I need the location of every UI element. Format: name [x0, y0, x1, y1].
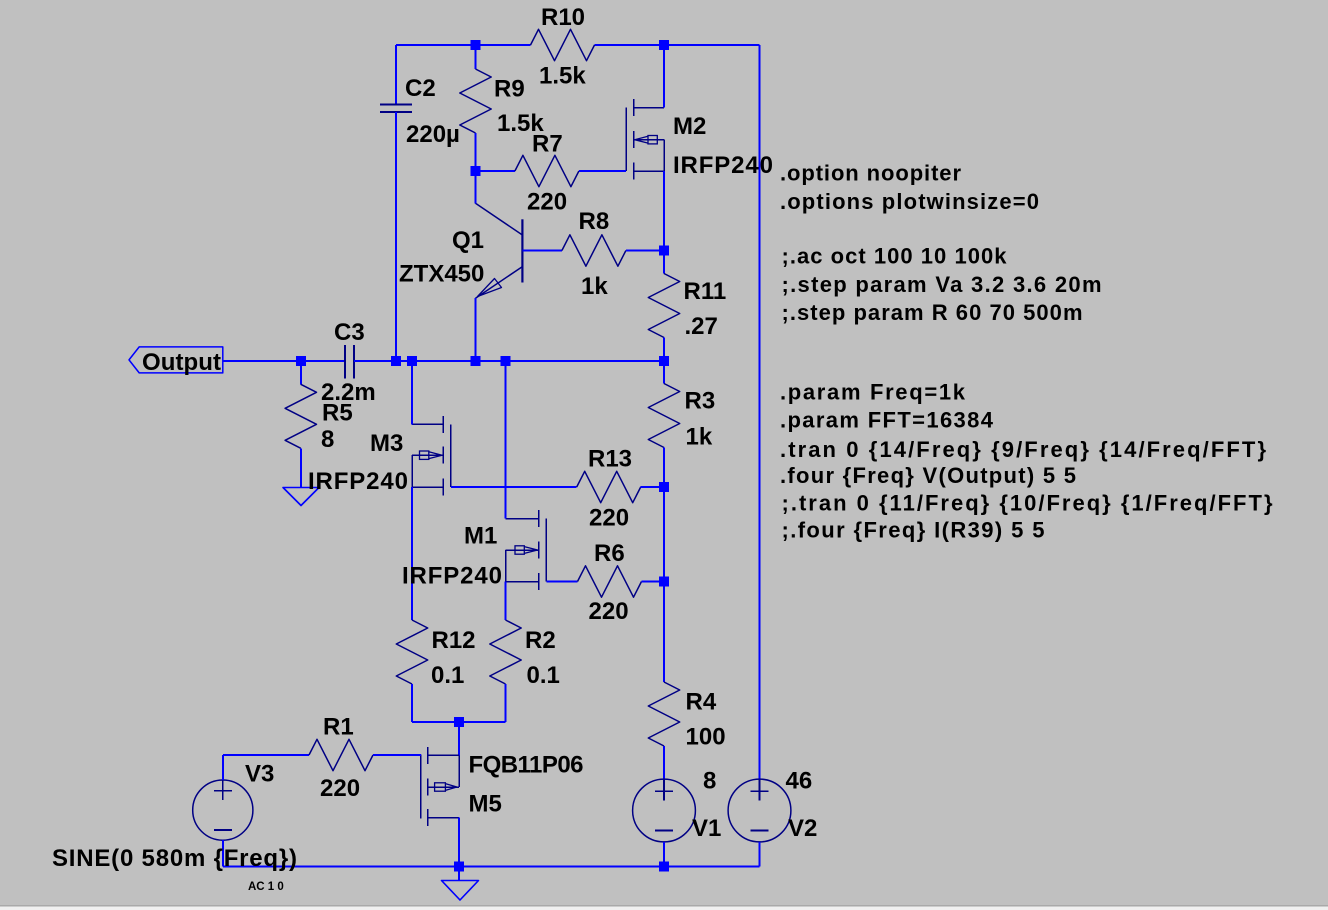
resistor R12: [396, 620, 427, 722]
svg-text:.option noopiter: .option noopiter: [780, 161, 961, 186]
svg-text:IRFP240: IRFP240: [673, 152, 773, 179]
svg-text:;.four {Freq} I(R39) 5 5: ;.four {Freq} I(R39) 5 5: [782, 518, 1045, 543]
label R6 value: [589, 598, 629, 625]
wire right rail: [759, 45, 761, 780]
svg-text:C3: C3: [334, 319, 365, 346]
svg-text:;.ac oct 100 10 100k: ;.ac oct 100 10 100k: [782, 244, 1008, 269]
svg-text:ZTX450: ZTX450: [399, 261, 484, 288]
label V1 value: [703, 768, 716, 795]
resistor R7: [476, 155, 627, 186]
label R12 value: [431, 662, 464, 689]
svg-text:.param Freq=1k: .param Freq=1k: [780, 379, 966, 404]
wire Q1 emitter: [475, 298, 477, 361]
label R2 value: [527, 662, 560, 689]
net directive block2 line2: [780, 407, 994, 432]
label R6: [594, 540, 625, 567]
svg-text:SINE(0 580m {Freq}): SINE(0 580m {Freq}): [52, 845, 297, 872]
label R9 value: [497, 110, 544, 137]
svg-text:;.step param Va 3.2 3.6 20m: ;.step param Va 3.2 3.6 20m: [782, 272, 1102, 297]
node junction M1-rail: [501, 356, 511, 366]
ground main: [442, 881, 479, 901]
wire M3 source: [411, 487, 413, 620]
wire Q1 collector: [475, 171, 477, 203]
node junction R6-R4: [659, 577, 669, 587]
svg-text:100: 100: [686, 724, 726, 751]
transistor M1: [506, 510, 547, 590]
svg-text:FQB11P06: FQB11P06: [469, 752, 584, 779]
svg-text:46: 46: [786, 768, 813, 795]
label Q1 value: [399, 261, 484, 288]
svg-text:R6: R6: [594, 540, 625, 567]
resistor R13: [577, 471, 664, 502]
svg-text:M2: M2: [673, 113, 706, 140]
svg-text:.options plotwinsize=0: .options plotwinsize=0: [780, 189, 1039, 214]
label M3: [370, 430, 403, 457]
ground R5: [283, 488, 319, 506]
svg-text:220: 220: [320, 775, 360, 802]
node junction R8-R11: [659, 246, 669, 256]
transistor Q1: [476, 203, 523, 298]
svg-text:V3: V3: [245, 761, 274, 788]
wire M3 drain: [411, 361, 413, 424]
node junction R5: [296, 356, 306, 366]
svg-text:R9: R9: [494, 76, 525, 103]
source V2: [728, 779, 791, 842]
label Q1: [452, 227, 484, 254]
wire M5 source: [458, 722, 460, 755]
net directive block2 line1: [780, 379, 966, 404]
net directive block2 line3: [780, 437, 1266, 462]
label R11 value: [685, 313, 718, 340]
net directive block2 line6: [782, 518, 1045, 543]
svg-text:R7: R7: [532, 131, 563, 158]
resistor R3: [648, 361, 679, 487]
source V1: [633, 779, 696, 842]
svg-text:1k: 1k: [686, 424, 713, 451]
label R10 value: [539, 62, 586, 89]
wire ground rail: [223, 865, 760, 867]
label M2: [673, 113, 706, 140]
label C3: [334, 319, 365, 346]
label R3: [685, 388, 716, 415]
svg-text:C2: C2: [405, 75, 436, 102]
label R8 value: [581, 273, 608, 300]
resistor R8: [522, 235, 664, 266]
svg-text:R3: R3: [685, 388, 716, 415]
wire V1 bottom: [663, 842, 665, 866]
wire M1 source: [505, 582, 507, 621]
wire main rail right: [354, 360, 664, 362]
capacitor C2: [380, 45, 412, 361]
node junction R3-rail: [659, 356, 669, 366]
label M2 value: [673, 152, 773, 179]
wire M1 gate to R6: [546, 581, 577, 583]
svg-text:8: 8: [321, 426, 334, 453]
label M1 value: [402, 563, 502, 590]
svg-text:8: 8: [703, 768, 716, 795]
label R12: [432, 627, 476, 654]
net directive block1 line4: [782, 272, 1102, 297]
label R10: [541, 4, 585, 31]
svg-text:1k: 1k: [581, 273, 608, 300]
svg-text:220: 220: [589, 598, 629, 625]
source V3: [193, 779, 253, 840]
label V3 value: [52, 845, 297, 872]
node junction gnd-center: [454, 861, 464, 871]
net directive block2 line4: [780, 463, 1076, 488]
wire M2 drain: [663, 45, 665, 108]
wire top rail: [396, 44, 760, 46]
resistor R1: [309, 739, 421, 770]
svg-text:.27: .27: [685, 313, 718, 340]
capacitor C3: [345, 345, 354, 379]
svg-text:R4: R4: [686, 689, 717, 716]
svg-text:0.1: 0.1: [527, 662, 560, 689]
label V3: [245, 761, 274, 788]
wire M2 source: [663, 171, 665, 250]
wire M1 drain: [505, 361, 507, 519]
label C2: [405, 75, 436, 102]
label R4: [686, 689, 717, 716]
wire V3 to R1: [223, 754, 309, 756]
svg-text:1.5k: 1.5k: [539, 62, 586, 89]
wire gnd stub: [458, 866, 460, 880]
svg-text:0.1: 0.1: [431, 662, 464, 689]
net directive block2 line5: [782, 490, 1273, 515]
label M5 value: [469, 752, 584, 779]
node junction Q1-rail: [471, 356, 481, 366]
wire V2 bottom: [759, 842, 761, 866]
svg-text:220: 220: [527, 189, 567, 216]
svg-text:V1: V1: [692, 815, 721, 842]
net directive block1 line2: [780, 189, 1039, 214]
label C3 value: [321, 379, 376, 406]
transistor M5: [421, 747, 459, 826]
svg-text:R11: R11: [684, 278, 727, 305]
svg-text:M3: M3: [370, 430, 403, 457]
transistor M2: [626, 99, 664, 179]
label V2: [788, 815, 817, 842]
svg-text:R8: R8: [579, 208, 610, 235]
status bar strip: [0, 905, 1328, 910]
net directive block1 line1: [780, 161, 961, 186]
resistor R10: [531, 29, 595, 60]
wire main rail left: [223, 360, 345, 362]
svg-text:IRFP240: IRFP240: [308, 468, 408, 495]
svg-text:M5: M5: [469, 791, 502, 818]
node junction R12-R2: [454, 717, 464, 727]
label C2 value: [406, 121, 460, 148]
net directive block1 line5: [782, 300, 1083, 325]
label R2: [525, 627, 556, 654]
label R4 value: [686, 724, 726, 751]
label M5: [469, 791, 502, 818]
label R11: [684, 278, 727, 305]
label R1 value: [320, 775, 360, 802]
resistor R5: [285, 361, 316, 488]
svg-text:;.step param R 60 70 500m: ;.step param R 60 70 500m: [782, 300, 1083, 325]
net directive block1 line3: [782, 244, 1008, 269]
svg-text:220µ: 220µ: [406, 121, 460, 148]
svg-text:R2: R2: [525, 627, 556, 654]
flag Output: [129, 347, 223, 373]
node junction M3-rail: [407, 356, 417, 366]
label R5: [322, 400, 353, 427]
resistor R2: [490, 620, 521, 722]
node junction top-R9: [471, 40, 481, 50]
label R5 value: [321, 426, 334, 453]
node junction top-M2: [659, 40, 669, 50]
svg-text:R13: R13: [588, 446, 632, 473]
label R7 value: [527, 189, 567, 216]
resistor R11: [648, 251, 679, 362]
label R9: [494, 76, 525, 103]
label M1: [464, 523, 497, 550]
svg-text:AC 1 0: AC 1 0: [248, 881, 284, 893]
svg-text:IRFP240: IRFP240: [402, 563, 502, 590]
svg-text:R10: R10: [541, 4, 585, 31]
label V3 AC: [248, 881, 284, 893]
svg-text:Output: Output: [142, 349, 221, 376]
label R13 value: [589, 505, 629, 532]
label R8: [579, 208, 610, 235]
svg-text:220: 220: [589, 505, 629, 532]
wire M3 gate to R13: [451, 486, 577, 488]
wire V3 top: [222, 755, 224, 780]
label R7: [532, 131, 563, 158]
node junction gnd-V1: [659, 861, 669, 871]
svg-text:.param FFT=16384: .param FFT=16384: [780, 407, 994, 432]
resistor R6: [578, 566, 665, 597]
label R3 value: [686, 424, 713, 451]
resistor R9: [460, 45, 491, 171]
label Output text: [142, 349, 221, 376]
wire V3 bottom: [222, 840, 224, 866]
node junction C2-rail: [391, 356, 401, 366]
svg-text:V2: V2: [788, 815, 817, 842]
wire bottom node row: [412, 721, 506, 723]
label R13: [588, 446, 632, 473]
svg-text:R5: R5: [322, 400, 353, 427]
label V1: [692, 815, 721, 842]
wire M5 drain: [458, 818, 460, 867]
node junction R13-R3: [659, 482, 669, 492]
svg-text:R12: R12: [432, 627, 476, 654]
svg-text:R1: R1: [323, 714, 354, 741]
label M3 value: [308, 468, 408, 495]
svg-text:Q1: Q1: [452, 227, 484, 254]
wire R13 junction down: [663, 487, 665, 582]
label R1: [323, 714, 354, 741]
node junction R9-R7: [471, 166, 481, 176]
transistor M3: [412, 416, 451, 496]
resistor R4: [648, 582, 679, 780]
label V2 value: [786, 768, 813, 795]
svg-text:M1: M1: [464, 523, 497, 550]
